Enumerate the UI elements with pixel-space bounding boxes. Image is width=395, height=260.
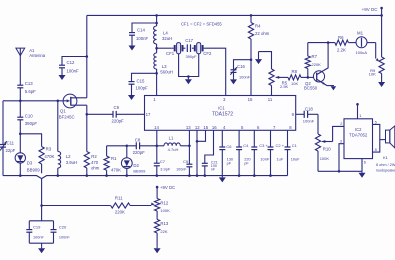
svg-text:220K: 220K [312,62,322,67]
svg-text:100pF: 100pF [136,86,149,91]
capacitor C1 [285,130,301,175]
wire IC2 pin5 to speaker [373,124,380,139]
svg-text:470K: 470K [44,154,54,159]
svg-text:C5: C5 [183,159,189,164]
pin 14 [154,125,159,130]
capacitor C7 [154,159,171,176]
svg-text:BC550: BC550 [304,86,318,91]
svg-text:L1: L1 [169,135,174,140]
pin 6 [257,125,260,130]
svg-text:100nF: 100nF [239,74,251,79]
wire +9V top rail [87,14,382,16]
node R7 base [307,76,310,79]
svg-text:1uF: 1uF [277,156,284,161]
wire Q1 drain up [86,15,88,97]
node gate-C13 [19,100,22,103]
pin 5 [241,125,244,130]
svg-text:8: 8 [375,147,377,152]
pin 2 IC2 [340,121,342,126]
svg-text:C12: C12 [67,60,75,65]
wire CF ground loop [179,54,199,77]
svg-text:C3 +: C3 + [259,143,268,148]
svg-text:C13: C13 [25,81,33,86]
wire output ground rail [318,170,362,173]
inductor L2 [58,101,77,176]
resistor R9 [369,56,385,76]
svg-text:C14: C14 [137,28,145,33]
pin 12 [195,125,200,130]
svg-text:470: 470 [91,160,99,165]
svg-text:100nF: 100nF [59,235,70,239]
node IC2 supply [356,103,359,119]
ground output [359,171,366,178]
svg-text:C4: C4 [243,143,249,148]
wire R3 to tuning line (hop over rail) [41,164,43,206]
svg-text:15: 15 [203,125,208,130]
node rail junction [105,174,108,177]
svg-text:22 ohm: 22 ohm [255,31,270,36]
svg-text:12: 12 [195,125,200,130]
pin 16 [212,125,217,130]
pin 5 IC2 [375,120,377,125]
resistor R6 [335,35,349,53]
varicap D2 [121,145,146,176]
capacitor C17 [185,38,197,59]
resistor R8 [288,69,301,86]
capacitor C9 [87,105,145,123]
wire rail to L4 [155,15,158,26]
capacitor C12 [59,57,87,81]
svg-text:R1: R1 [111,156,117,161]
node rail junction [196,174,199,177]
resistor R7 [305,43,321,78]
pin 3 IC2 [340,139,342,144]
svg-text:+9V DC: +9V DC [362,7,379,12]
svg-text:10K: 10K [369,71,376,76]
resistor R13 [155,211,169,234]
pin 1 IC2 [359,113,361,118]
svg-text:100uA: 100uA [356,50,368,55]
svg-text:22pF: 22pF [6,148,16,153]
node L4-CF1 [155,44,158,50]
svg-text:BB909: BB909 [133,168,146,173]
svg-text:R12: R12 [160,200,168,205]
svg-text:2: 2 [340,121,342,126]
pin 4 [223,125,226,130]
svg-text:470K: 470K [111,168,121,173]
svg-text:BB909: BB909 [27,168,41,173]
capacitor C10 [17,101,37,126]
svg-text:4.7uH: 4.7uH [168,147,179,152]
varicap D3 [15,134,40,176]
pin 15 bottom [203,125,208,130]
wire right supply column [380,14,383,56]
svg-text:IC1: IC1 [218,106,225,111]
wire main ground rail [3,176,288,179]
pin 8 IC2 [375,147,377,152]
wire CF2 to pin 3 [206,48,226,95]
svg-text:Q1: Q1 [60,109,66,114]
potentiometer R5 [269,69,289,96]
node rail junction [269,174,272,177]
capacitor C15 [128,73,157,100]
wire pin13 column [188,130,191,164]
svg-text:220pF: 220pF [133,150,146,155]
node rail junction [188,174,191,177]
pin 3 [223,97,226,102]
meter M1 [348,31,367,55]
capacitor C6 [219,130,234,175]
svg-text:R2: R2 [91,154,97,159]
ground R9 [378,74,385,88]
wire pin12 column [196,130,199,175]
svg-text:L4: L4 [163,31,168,36]
svg-text:100nF: 100nF [303,119,315,124]
antenna A1 [16,48,46,58]
capacitor C18 [296,106,318,123]
capacitor C5 [176,159,192,176]
node rail junction [204,174,207,177]
capacitor C19 C20 block [26,206,70,254]
inductor L3 [154,48,173,95]
wire M1 wiper into R9 [367,43,380,63]
pin 8 [289,125,292,130]
svg-text:+9V DC: +9V DC [160,185,175,190]
svg-text:L2: L2 [66,154,71,159]
wire pin16 jog [205,130,214,163]
svg-text:R3: R3 [46,146,52,151]
wire C10 to varicap node [19,120,22,135]
wiper arrow into R5 [276,76,288,79]
svg-text:220pF: 220pF [112,118,125,123]
svg-text:22K: 22K [160,229,167,234]
resistor R2 [84,114,100,175]
svg-text:10uF: 10uF [291,156,300,161]
svg-text:390pF: 390pF [186,54,198,59]
svg-text:10K: 10K [291,81,298,86]
node rail-R4 [250,14,253,17]
svg-text:15: 15 [248,97,253,102]
wire IC2 pin6 ground [361,159,363,172]
svg-text:C2 +: C2 + [276,143,285,148]
op-amp IC1 TDA1572 [145,96,296,131]
node rail junction [57,174,60,177]
node C12 tap [86,55,89,58]
svg-text:M1: M1 [357,31,364,36]
svg-text:C19: C19 [33,225,41,230]
wire varicap node to R3 [20,134,41,147]
pin 11 [268,97,273,102]
wire IC2 pin2 jog [333,126,344,141]
loudspeaker K1 [376,126,395,173]
svg-text:TDA1572: TDA1572 [212,112,233,118]
svg-text:C6: C6 [226,144,232,149]
wire gate line [3,100,63,102]
resistor R3 [39,146,55,164]
node rail junction [156,174,159,177]
potentiometer R10 [315,114,331,171]
svg-text:C16: C16 [237,64,245,69]
svg-text:100K: 100K [160,208,170,213]
inductor L1 [157,135,190,152]
svg-text:3.9uH: 3.9uH [66,160,77,165]
capacitor C2 [268,130,285,175]
wire Q2 emitter to ground [327,86,336,91]
svg-text:C1: C1 [292,143,298,148]
node rail junction [19,174,22,177]
node +9V DC bottom [156,185,175,190]
pin 13 [186,125,191,130]
node rail junction [86,174,89,177]
svg-text:17: 17 [146,112,151,117]
pin 17 [146,112,151,117]
pin 9 [292,112,295,117]
capacitor C8 [133,138,157,155]
wire C13 to gate node [19,88,21,101]
svg-text:14: 14 [154,125,159,130]
svg-text:C9: C9 [114,105,120,110]
svg-text:560uH: 560uH [160,69,173,74]
resistor R11 [111,196,131,215]
pin 15 top [248,97,253,102]
pin 1 [153,97,156,102]
svg-text:3.9pF: 3.9pF [160,167,171,172]
svg-text:220K: 220K [115,210,125,215]
ground R13 [154,233,161,253]
svg-text:C8: C8 [135,138,141,143]
resistor R4 [248,15,269,39]
wire C8 node [107,145,137,147]
pin 6 IC2 [364,159,366,164]
svg-text:K1: K1 [383,155,389,160]
svg-text:R7: R7 [312,54,318,59]
svg-text:C17: C17 [185,38,193,43]
svg-text:CF1 = CF2 = SFD455: CF1 = CF2 = SFD455 [181,22,222,27]
svg-text:32uH: 32uH [162,36,172,41]
resistor R1 [104,146,121,176]
svg-text:13: 13 [186,125,191,130]
svg-text:CF2: CF2 [203,51,212,56]
svg-text:nF: nF [211,168,216,172]
wire R4 to pin 15 [250,39,253,96]
pin 7 [273,125,276,130]
node rail junction [126,174,129,177]
svg-text:5.6pF: 5.6pF [25,89,36,94]
filter note [181,22,222,27]
ground CF loop [185,75,192,84]
svg-text:100nF: 100nF [136,36,149,41]
node +9V DC top right [362,7,383,16]
wire tuning line [42,205,111,207]
wire collector rail [308,41,335,44]
op-amp IC2 TDA7052 [344,119,373,159]
capacitor C13 [17,81,36,94]
svg-text:2.2K: 2.2K [337,48,346,53]
ground hook of R5 [255,52,272,69]
node rail junction [253,174,256,177]
transistor Q2 BC550 [304,71,327,91]
svg-text:R4: R4 [255,24,261,29]
svg-text:C20: C20 [59,225,67,230]
svg-text:100nF: 100nF [67,69,80,74]
svg-text:C11: C11 [7,140,15,145]
svg-text:11: 11 [268,97,273,102]
svg-text:ohm: ohm [91,166,100,171]
wire pin14 column [156,130,159,163]
node rail junction [238,174,241,177]
svg-text:BF245C: BF245C [59,115,75,120]
svg-text:R13: R13 [160,221,168,226]
svg-text:10nF: 10nF [260,156,269,161]
svg-text:R11: R11 [115,196,123,201]
svg-text:16: 16 [212,125,217,130]
wire Q1 source down [86,105,89,115]
svg-text:390pF: 390pF [25,121,38,126]
svg-text:loudspeaker: loudspeaker [376,169,395,173]
svg-text:1: 1 [359,113,361,118]
svg-text:100nF: 100nF [176,168,187,172]
wire base [301,76,314,78]
wire pin15 jog [197,130,206,141]
svg-text:D2: D2 [133,163,139,168]
svg-text:D3: D3 [27,161,33,166]
resistor R12 [155,187,171,213]
wire IC2 pin8 to speaker [373,140,380,153]
svg-text:Antenna: Antenna [29,53,46,58]
wire R11 to wiper [130,202,155,206]
svg-text:100nF: 100nF [33,235,44,239]
svg-text:6: 6 [364,159,366,164]
svg-text:CF1: CF1 [166,51,175,56]
svg-text:IC2: IC2 [355,127,362,132]
svg-text:2.5K: 2.5K [280,84,289,89]
svg-text:100K: 100K [320,156,330,161]
svg-text:R10: R10 [323,147,331,152]
ceramic filter CF2 [192,43,212,57]
inductor L4 [154,26,173,44]
svg-text:C7: C7 [160,159,166,164]
svg-text:C18: C18 [305,106,313,111]
svg-text:R6: R6 [338,35,344,40]
wire antenna to C13 [19,56,21,86]
svg-text:3: 3 [340,139,342,144]
ground main rail [219,176,226,183]
wire IC2 pin3 jog [339,144,344,172]
trimmer C16 [230,60,251,85]
svg-text:R8: R8 [292,69,298,74]
svg-text:8 ohm / 2W: 8 ohm / 2W [376,163,395,167]
capacitor C3 [251,130,270,175]
svg-text:C10: C10 [25,114,33,119]
capacitor C14 [129,23,157,51]
svg-text:TDA7052: TDA7052 [349,133,368,138]
ceramic filter CF1 [157,43,186,57]
svg-text:C15: C15 [137,78,145,83]
capacitor C4 [236,130,251,175]
capacitor C21 [202,161,218,176]
transistor Q1 BF245C [59,94,87,120]
node top rail - L4 [155,14,158,17]
svg-text:pF: pF [244,161,249,166]
wire Q2 collector [323,43,328,71]
trimmer C11 [0,101,16,176]
wiper arrow into R10 [322,140,333,143]
node gate-L2 [57,100,60,103]
svg-text:pF: pF [227,161,232,166]
node tuning line [40,204,43,207]
